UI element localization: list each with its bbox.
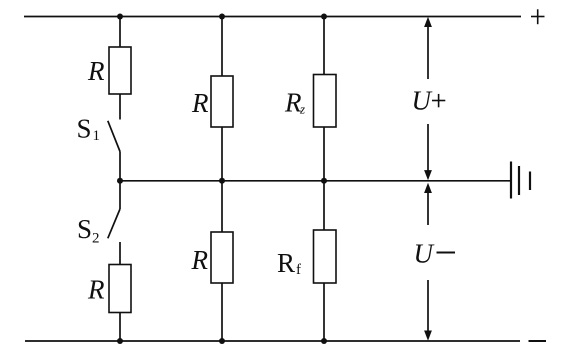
wire branch1 top [119, 17, 121, 48]
wire branch1 bottom [119, 313, 121, 342]
svg-text:S: S [77, 114, 92, 144]
top supply rail (+) [24, 16, 521, 18]
resistor R (lower middle) [211, 232, 233, 283]
svg-text:R: R [87, 275, 105, 305]
resistor Rz box [314, 75, 337, 128]
wire branch1 to middle node [119, 152, 121, 210]
arrowhead down (middle wire, U+) [424, 170, 432, 180]
svg-text:R: R [191, 88, 209, 118]
arrowhead up (top rail, U+) [424, 17, 432, 27]
wire branch1 below resistor [119, 94, 121, 120]
bottom supply rail (−) [25, 340, 520, 342]
svg-text:U: U [414, 239, 435, 269]
plus label at top right [531, 9, 545, 24]
arrowhead up (middle wire, U-) [424, 183, 432, 193]
svg-text:U: U [412, 86, 433, 116]
junction dot branch1 top [117, 14, 123, 20]
svg-text:R: R [87, 56, 105, 86]
label Rz of upper-right resistor [284, 88, 305, 118]
resistor R (upper middle) [211, 76, 233, 127]
wire branch3 top [323, 17, 325, 75]
svg-text:S: S [77, 214, 92, 244]
svg-text:2: 2 [92, 231, 100, 247]
dash of U- label [437, 252, 456, 254]
label S2 of switch [77, 214, 100, 247]
ground bar 3 [529, 172, 531, 191]
middle node wire to ground [120, 180, 511, 182]
resistor R (upper left) [109, 47, 131, 94]
svg-text:1: 1 [93, 128, 101, 144]
junction dot branch3 top [321, 14, 327, 20]
svg-text:f: f [296, 262, 301, 278]
junction dot branch2 top [219, 14, 225, 20]
switch S2 arm [108, 209, 120, 238]
arrowhead down (bottom rail, U-) [424, 331, 432, 341]
switch S1 arm [108, 121, 120, 152]
resistor R (lower left) [109, 265, 131, 313]
junction dot branch3 bottom [321, 338, 327, 344]
junction dot branch3 middle [321, 178, 327, 184]
junction dot branch2 middle [219, 178, 225, 184]
junction dot branch1 bottom [117, 338, 123, 344]
wire branch3 middle [323, 127, 325, 230]
junction node dot branch1 middle [117, 178, 123, 184]
wire branch2 middle [221, 127, 223, 232]
plus of U+ label [432, 94, 445, 107]
label S1 of switch [77, 114, 101, 145]
wire branch2 bottom [221, 283, 223, 341]
arrow shaft U+ upper [427, 26, 429, 79]
arrow shaft U- upper [427, 193, 429, 226]
arrow shaft U+ lower [427, 124, 429, 172]
junction dot branch2 bottom [219, 338, 225, 344]
wire branch3 bottom [323, 283, 325, 341]
wire branch1 stub below S2 [119, 242, 121, 265]
ground bar 2 [518, 166, 520, 195]
minus label at bottom right [529, 340, 547, 342]
wire branch2 top [221, 17, 223, 77]
svg-text:R: R [191, 245, 209, 275]
resistor Rf box [314, 230, 337, 283]
svg-text:z: z [299, 102, 305, 117]
label Rf of lower-right resistor [277, 248, 301, 278]
svg-text:R: R [277, 248, 295, 278]
arrow shaft U- lower [427, 280, 429, 332]
ground bar 1 [510, 162, 512, 199]
